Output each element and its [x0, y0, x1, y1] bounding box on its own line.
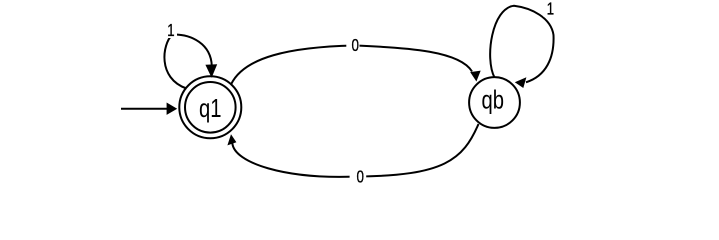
state qb circle [469, 77, 520, 128]
label 0 on top edge [346, 35, 359, 55]
state q1 outer circle [179, 76, 241, 138]
svg-text:qb: qb [481, 85, 504, 115]
wire edge qb to q1 arrowhead [227, 134, 236, 145]
wire edge q1 to qb arrowhead [470, 71, 481, 82]
svg-text:0: 0 [351, 35, 359, 55]
wire start arrow shaft [121, 108, 168, 110]
wire self-loop q1 curve [164, 35, 211, 89]
wire self-loop qb arrowhead [515, 77, 527, 88]
wire self-loop qb curve [490, 6, 553, 83]
label 0 on bottom edge [350, 167, 367, 187]
label 1 on q1 self-loop [164, 20, 177, 40]
svg-text:1: 1 [167, 20, 175, 40]
state q1 inner circle [185, 82, 236, 133]
wire edge q1 to qb top curve [231, 46, 472, 85]
wire self-loop q1 arrowhead [205, 64, 217, 77]
label 1 on qb self-loop [544, 0, 558, 19]
svg-text:1: 1 [547, 0, 555, 19]
svg-text:q1: q1 [199, 93, 222, 123]
svg-text:0: 0 [357, 167, 365, 187]
wire edge qb to q1 bottom curve [232, 124, 478, 177]
wire start arrowhead [167, 103, 178, 115]
